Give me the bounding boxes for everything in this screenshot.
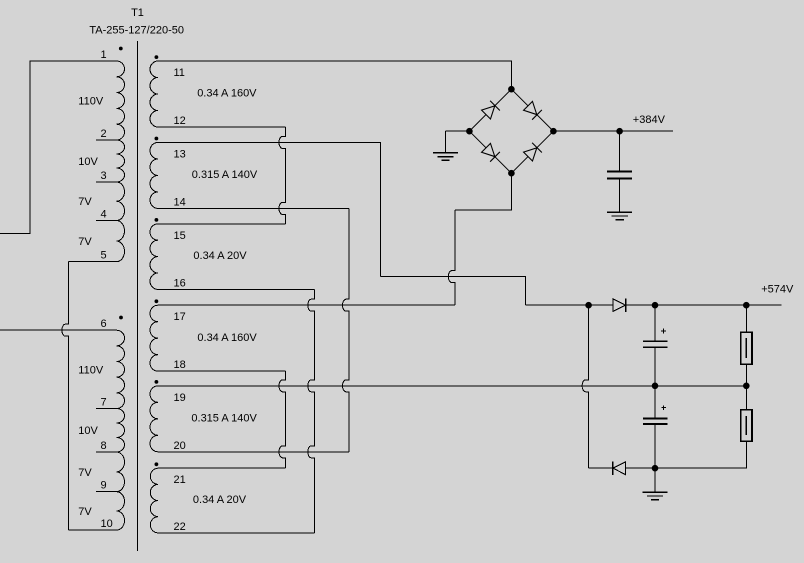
svg-text:15: 15 (174, 230, 186, 242)
svg-text:+574V: +574V (761, 284, 794, 296)
svg-text:18: 18 (174, 359, 186, 371)
svg-text:11: 11 (174, 67, 185, 79)
svg-text:16: 16 (174, 277, 186, 289)
svg-text:13: 13 (174, 148, 186, 160)
svg-text:14: 14 (174, 196, 186, 208)
svg-text:0.34 A 20V: 0.34 A 20V (193, 494, 247, 506)
svg-text:0.315 A 140V: 0.315 A 140V (191, 412, 257, 424)
svg-text:10V: 10V (78, 156, 98, 168)
svg-text:21: 21 (174, 474, 186, 486)
svg-text:20: 20 (174, 440, 186, 452)
svg-text:7V: 7V (78, 506, 92, 518)
svg-text:7V: 7V (78, 467, 92, 479)
svg-text:7: 7 (101, 397, 107, 409)
svg-text:110V: 110V (78, 364, 104, 376)
svg-text:0.315 A 140V: 0.315 A 140V (192, 169, 258, 181)
svg-text:5: 5 (101, 250, 107, 262)
svg-text:2: 2 (101, 128, 107, 140)
svg-text:0.34 A 160V: 0.34 A 160V (197, 332, 257, 344)
svg-text:10: 10 (101, 518, 113, 530)
svg-text:12: 12 (174, 115, 186, 127)
svg-text:22: 22 (174, 521, 186, 533)
svg-text:17: 17 (174, 311, 186, 323)
svg-text:TA-255-127/220-50: TA-255-127/220-50 (89, 25, 184, 37)
svg-text:19: 19 (174, 392, 186, 404)
svg-text:4: 4 (101, 209, 107, 221)
svg-text:110V: 110V (78, 96, 104, 108)
svg-text:T1: T1 (131, 7, 144, 19)
svg-text:+384V: +384V (633, 114, 666, 126)
svg-text:0.34 A 20V: 0.34 A 20V (193, 250, 247, 262)
svg-text:7V: 7V (78, 236, 92, 248)
svg-text:0.34 A 160V: 0.34 A 160V (197, 88, 257, 100)
svg-text:3: 3 (101, 170, 107, 182)
svg-text:7V: 7V (78, 196, 92, 208)
svg-text:8: 8 (101, 440, 107, 452)
svg-text:1: 1 (101, 49, 107, 61)
svg-text:9: 9 (101, 480, 107, 492)
svg-text:6: 6 (101, 318, 107, 330)
svg-text:10V: 10V (78, 425, 98, 437)
